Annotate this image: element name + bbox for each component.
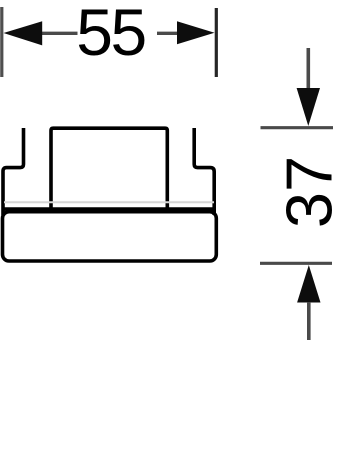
dimension 37: top arrowhead [297,88,320,126]
dimension 55: right arrowhead [177,21,215,44]
dimension 55: right arrow tail [157,32,178,35]
dimension 37: top extension tick [261,126,334,129]
dimension 37: bottom arrow tail [307,302,311,340]
dimension 37: bottom extension tick [260,262,332,265]
base slab (rounded) [3,212,217,261]
right tab (L-profile) [194,128,214,215]
dimension 55: right extension line [215,8,218,77]
cap rectangle (raised centre block) [51,128,167,210]
left tab (L-profile) [3,128,24,215]
faint inner line [4,201,214,203]
dimension 55: left arrowhead [4,21,43,45]
svg-text:55: 55 [76,0,144,69]
svg-text:37: 37 [273,156,346,228]
dimension 37: bottom arrowhead [297,265,320,303]
dimension 55: left arrow tail [41,32,78,35]
upper part bottom edge [3,207,215,211]
dimension 37: top arrow tail [306,48,310,90]
dimension 55: left extension line [0,7,3,77]
